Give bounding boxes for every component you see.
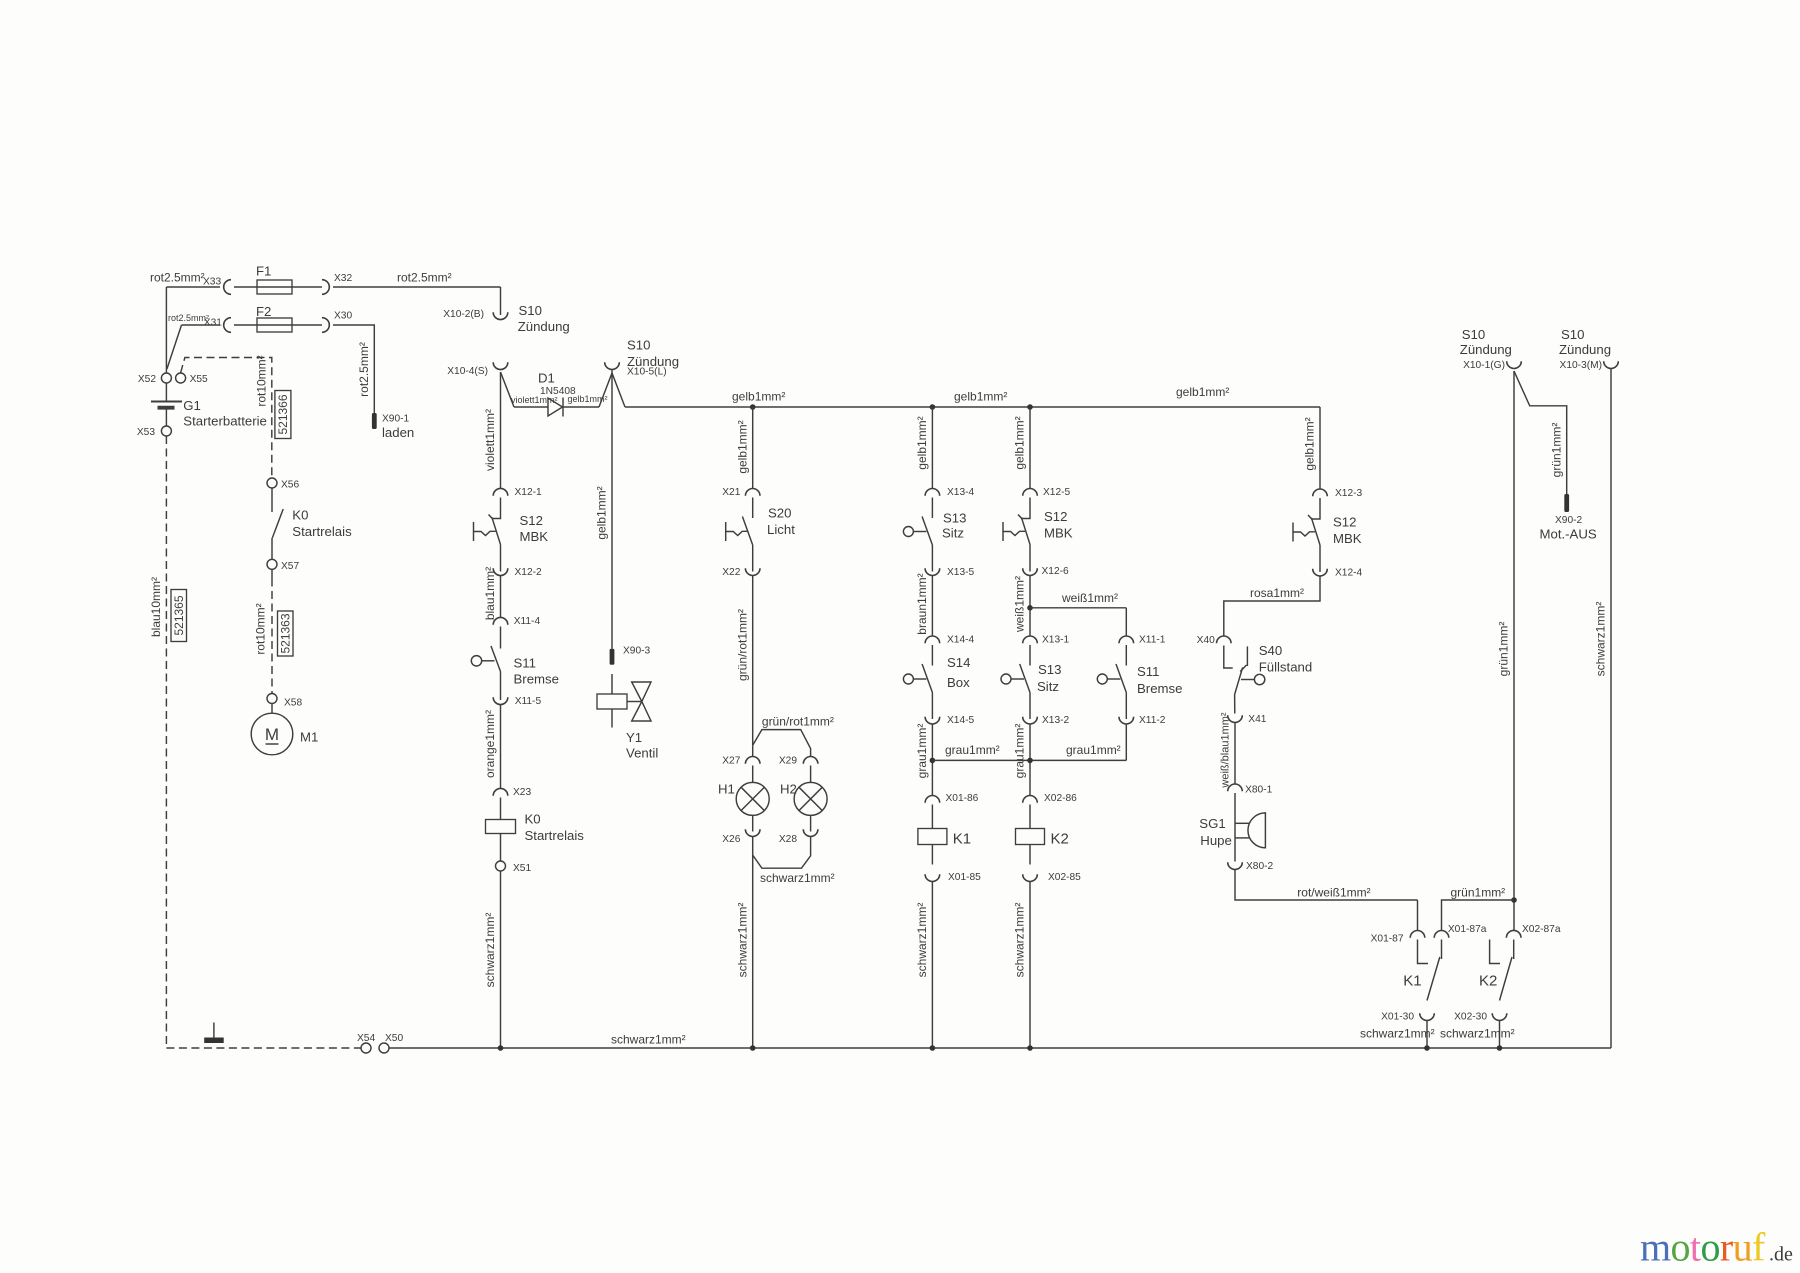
switch S12 MBK: [1003, 498, 1030, 572]
svg-text:K0: K0: [525, 812, 541, 827]
connector X10-5(L): [605, 362, 620, 369]
svg-text:Bremse: Bremse: [1137, 681, 1182, 696]
svg-text:blau1mm²: blau1mm²: [483, 567, 497, 620]
connector X22: [745, 568, 760, 575]
svg-text:schwarz1mm²: schwarz1mm²: [611, 1033, 686, 1047]
junction K1 branch: [930, 1045, 936, 1051]
relay contact K2: [1490, 940, 1514, 1001]
svg-text:violett1mm²: violett1mm²: [483, 409, 497, 471]
svg-text:X10-2(B): X10-2(B): [443, 309, 484, 320]
junction S20 branch: [750, 404, 756, 410]
svg-text:X22: X22: [722, 567, 740, 578]
terminal X50: [379, 1043, 389, 1053]
wire K1 to X01-85: [931, 845, 933, 865]
svg-text:rosa1mm²: rosa1mm²: [1250, 586, 1304, 600]
connector X27: [745, 757, 760, 764]
svg-text:grau1mm²: grau1mm²: [945, 743, 1000, 757]
svg-text:X02-85: X02-85: [1048, 872, 1081, 883]
wire through fuse F2: [234, 324, 322, 326]
svg-text:H1: H1: [718, 782, 735, 797]
connector X01-30: [1420, 1013, 1435, 1020]
svg-text:Licht: Licht: [767, 522, 795, 537]
svg-text:gelb1mm²: gelb1mm²: [735, 420, 749, 473]
svg-text:X57: X57: [281, 561, 299, 572]
svg-text:schwarz1mm²: schwarz1mm²: [735, 903, 749, 978]
svg-text:X80-2: X80-2: [1246, 861, 1274, 872]
connector X11-1: [1119, 636, 1134, 643]
svg-text:S40: S40: [1259, 643, 1282, 658]
svg-text:X10-4(S): X10-4(S): [447, 366, 488, 377]
svg-text:weiß1mm²: weiß1mm²: [1061, 591, 1118, 605]
wire weiß1mm²: [1029, 576, 1031, 637]
svg-text:X32: X32: [334, 273, 352, 284]
svg-text:X13-1: X13-1: [1042, 635, 1070, 646]
wire to X27: [752, 745, 754, 756]
relay contact K0 Startrelais: [272, 488, 283, 559]
connector X23: [493, 788, 508, 795]
junction S13 branch: [930, 404, 936, 410]
wire schwarz1mm² to ground bus: [1499, 1021, 1501, 1049]
junction lamp branch: [750, 1045, 756, 1051]
connector X80-1: [1228, 784, 1243, 791]
wire grün/rot1mm²: [752, 576, 754, 746]
connector X01-86: [925, 796, 940, 803]
wire into diode D1: [514, 406, 548, 408]
svg-text:F1: F1: [256, 264, 271, 279]
svg-text:MBK: MBK: [520, 529, 549, 544]
connector X11-2: [1119, 717, 1134, 724]
connector X12-1: [493, 488, 508, 495]
wire grau1mm² to K1: [931, 724, 933, 796]
wire grün1mm² to X90-2: [1514, 371, 1567, 494]
svg-text:schwarz1mm²: schwarz1mm²: [1594, 602, 1608, 677]
terminal X90-2 (Mot.-AUS): [1564, 494, 1569, 512]
svg-text:X31: X31: [204, 318, 222, 329]
svg-text:schwarz1mm²: schwarz1mm²: [483, 913, 497, 988]
wire schwarz1mm² to ground bus: [1426, 1021, 1428, 1049]
connector X12-4: [1313, 569, 1328, 576]
wire rot10mm² X57 to X58 (dashed): [271, 579, 273, 694]
svg-text:schwarz1mm²: schwarz1mm²: [1440, 1027, 1515, 1041]
relay contact K1: [1418, 940, 1442, 1001]
terminal X57: [267, 559, 277, 569]
wire rot2.5mm² X30 to X90-1: [333, 325, 374, 413]
svg-text:X13-4: X13-4: [947, 487, 975, 498]
svg-text:S10: S10: [519, 303, 542, 318]
svg-text:X55: X55: [190, 374, 208, 385]
pin H2 to X28: [810, 815, 812, 831]
junction K1 contact branch: [1424, 1045, 1430, 1051]
wire gelb1mm² bus to X21: [752, 407, 754, 489]
svg-text:grün/rot1mm²: grün/rot1mm²: [762, 715, 834, 729]
svg-text:rot/weiß1mm²: rot/weiß1mm²: [1297, 886, 1370, 900]
pin to K2 coil: [1029, 805, 1031, 829]
connector X10-3(M): [1604, 361, 1619, 368]
fuse F1: [257, 280, 292, 294]
svg-text:X12-3: X12-3: [1335, 488, 1363, 499]
svg-text:Hupe: Hupe: [1200, 833, 1232, 848]
svg-text:S12: S12: [520, 513, 543, 528]
connector X01-85: [925, 874, 940, 881]
switch S12 MBK: [1293, 498, 1320, 572]
svg-text:K0: K0: [292, 508, 308, 523]
wire schwarz1mm² to ground bus: [931, 882, 933, 1049]
switch S14 Box: [903, 645, 932, 719]
svg-text:laden: laden: [382, 425, 414, 440]
switch S12 MBK: [474, 498, 501, 572]
svg-text:X01-30: X01-30: [1381, 1012, 1414, 1023]
svg-text:X12-1: X12-1: [515, 487, 543, 498]
connector X28: [803, 829, 818, 836]
svg-text:gelb1mm²: gelb1mm²: [595, 486, 609, 539]
svg-text:weiß1mm²: weiß1mm²: [1013, 576, 1027, 633]
svg-text:rot10mm²: rot10mm²: [255, 355, 269, 406]
svg-text:braun1mm²: braun1mm²: [915, 573, 929, 634]
junction K2 branch: [1027, 1045, 1033, 1051]
part number 521365: [171, 590, 187, 642]
connector X12-2: [493, 568, 508, 575]
svg-text:X26: X26: [722, 834, 740, 845]
svg-text:Zündung: Zündung: [1559, 342, 1611, 357]
svg-text:gelb1mm²: gelb1mm²: [915, 416, 929, 469]
switch S20 Licht: [726, 498, 753, 572]
terminal X90-1 (laden): [372, 413, 377, 429]
terminal X53: [161, 426, 171, 436]
svg-text:S11: S11: [514, 656, 537, 671]
svg-text:gelb1mm²: gelb1mm²: [954, 390, 1007, 404]
relay coil K2: [1016, 829, 1045, 845]
svg-text:X01-85: X01-85: [948, 872, 981, 883]
wire gelb1mm² bus to X12-3: [1319, 407, 1321, 489]
svg-text:X11-2: X11-2: [1139, 715, 1166, 726]
svg-text:X41: X41: [1248, 714, 1266, 725]
svg-text:X01-87a: X01-87a: [1448, 924, 1487, 935]
pin X29 to H2: [810, 766, 812, 783]
svg-text:rot2.5mm²: rot2.5mm²: [357, 342, 371, 397]
wire gelb1mm² bus to X12-5: [1029, 407, 1031, 489]
wire X23 to K0 coil: [500, 798, 502, 820]
connector X11-4: [493, 617, 508, 624]
wire rot2.5mm² battery to X33: [166, 286, 220, 288]
wire K0 to X51: [500, 834, 502, 862]
chassis ground: [204, 1023, 224, 1044]
svg-text:X12-5: X12-5: [1043, 487, 1071, 498]
switch S11 Bremse: [1097, 645, 1126, 719]
svg-text:grün1mm²: grün1mm²: [1497, 622, 1511, 677]
svg-text:X54: X54: [357, 1033, 375, 1044]
svg-text:X90-3: X90-3: [623, 646, 651, 657]
svg-text:X28: X28: [779, 834, 797, 845]
wire X90-3 to Y1: [611, 674, 613, 694]
svg-text:521366: 521366: [276, 394, 290, 434]
svg-text:.de: .de: [1769, 1244, 1793, 1266]
svg-text:Box: Box: [947, 675, 970, 690]
svg-text:K2: K2: [1051, 831, 1069, 848]
svg-text:K1: K1: [953, 831, 971, 848]
bus wire schwarz1mm² ground: [389, 1047, 1611, 1049]
connector X31: [224, 318, 231, 333]
svg-text:schwarz1mm²: schwarz1mm²: [915, 903, 929, 978]
junction K2 contact branch: [1497, 1045, 1503, 1051]
connector X02-30: [1492, 1013, 1507, 1020]
part number 521363: [278, 611, 294, 656]
svg-text:S10: S10: [627, 338, 650, 353]
svg-text:Startrelais: Startrelais: [525, 828, 585, 843]
svg-text:X52: X52: [138, 374, 156, 385]
starter motor M1: [251, 713, 293, 755]
wire grau1mm² down to grau bus: [1125, 724, 1127, 760]
junction grau bus: [930, 758, 936, 764]
svg-text:schwarz1mm²: schwarz1mm²: [760, 871, 835, 885]
svg-text:X50: X50: [385, 1033, 403, 1044]
junction K0 branch: [498, 1045, 504, 1051]
svg-text:M1: M1: [300, 730, 318, 745]
wire weiß/blau1mm²: [1234, 723, 1236, 785]
svg-text:schwarz1mm²: schwarz1mm²: [1360, 1027, 1435, 1041]
svg-text:X33: X33: [203, 277, 221, 288]
svg-text:S20: S20: [768, 506, 791, 521]
junction weiß bus: [1027, 605, 1033, 611]
connector X13-2: [1023, 717, 1038, 724]
connector X26: [745, 829, 760, 836]
bus wire grau1mm²: [932, 759, 1126, 761]
wire rot/weiß1mm² to K1 contact: [1235, 870, 1418, 901]
svg-text:gelb1mm²: gelb1mm²: [1303, 417, 1317, 470]
wire grün1mm² X10-1(G) to K contacts: [1513, 371, 1515, 931]
svg-text:Y1: Y1: [626, 730, 642, 745]
svg-text:X11-4: X11-4: [514, 616, 541, 627]
connector X10-4(S): [493, 362, 508, 369]
svg-text:grau1mm²: grau1mm²: [1013, 724, 1027, 779]
wire braun1mm²: [931, 576, 933, 637]
connector X10-2(B): [493, 312, 508, 319]
junction grün1mm²: [1511, 897, 1517, 903]
svg-text:orange1mm²: orange1mm²: [483, 710, 497, 778]
connector X01-87a: [1434, 931, 1449, 938]
wire gelb1mm² from D1: [563, 406, 599, 408]
terminal X54: [361, 1043, 371, 1053]
connector X13-5: [925, 568, 940, 575]
pin to K1 coil: [931, 805, 933, 829]
svg-text:X51: X51: [513, 863, 531, 874]
svg-text:gelb1mm²: gelb1mm²: [1013, 416, 1027, 469]
svg-text:X58: X58: [284, 698, 302, 709]
lamp H2: [794, 782, 827, 815]
wire orange1mm²: [500, 705, 502, 789]
switch S13 Sitz: [903, 498, 932, 572]
terminal X56: [267, 478, 277, 488]
svg-text:X14-4: X14-4: [947, 635, 975, 646]
wire weiß1mm² to X11-1: [1125, 608, 1127, 636]
wire schwarz1mm² X26 to ground bus: [752, 837, 754, 1049]
float switch S40 Füllstand: [1224, 646, 1265, 714]
svg-text:rot10mm²: rot10mm²: [254, 603, 268, 654]
svg-text:X90-2: X90-2: [1555, 515, 1583, 526]
svg-text:Sitz: Sitz: [942, 526, 964, 541]
terminal X90-3: [610, 649, 615, 665]
wire gelb1mm² bus to X13-4: [931, 407, 933, 489]
wire rot2.5mm² X32 to S10: [333, 286, 501, 288]
svg-text:M: M: [265, 725, 279, 744]
svg-text:S12: S12: [1044, 509, 1067, 524]
connector X14-4: [925, 636, 940, 643]
relay coil K1: [918, 829, 947, 845]
svg-text:blau10mm²: blau10mm²: [149, 577, 163, 637]
wire schwarz1mm² to ground bus: [500, 871, 502, 1048]
svg-text:X56: X56: [281, 480, 299, 491]
solenoid valve Y1 Ventil: [597, 682, 651, 728]
svg-text:X10-1(G): X10-1(G): [1463, 360, 1505, 371]
svg-text:grün/rot1mm²: grün/rot1mm²: [735, 609, 749, 681]
svg-text:S10: S10: [1462, 327, 1485, 342]
connector X80-2: [1228, 862, 1243, 869]
connector X14-5: [925, 717, 940, 724]
connector X02-87a: [1506, 930, 1521, 937]
svg-text:grau1mm²: grau1mm²: [915, 724, 929, 779]
svg-text:Zündung: Zündung: [518, 319, 570, 334]
svg-text:K1: K1: [1403, 973, 1421, 990]
svg-text:Mot.-AUS: Mot.-AUS: [1540, 527, 1597, 542]
connector X41: [1228, 715, 1243, 722]
svg-text:motoruf: motoruf: [1640, 1225, 1766, 1270]
svg-text:Startrelais: Startrelais: [292, 524, 352, 539]
svg-text:X13-5: X13-5: [947, 567, 975, 578]
svg-text:X40: X40: [1197, 635, 1215, 646]
svg-text:X23: X23: [513, 787, 531, 798]
connector X32: [322, 280, 329, 295]
wire violett1mm² X10-4(S) to X12-1: [500, 372, 502, 489]
connector X10-1(G): [1507, 361, 1522, 368]
svg-text:S10: S10: [1561, 327, 1584, 342]
svg-text:X10-3(M): X10-3(M): [1560, 360, 1602, 371]
svg-text:Bremse: Bremse: [514, 672, 559, 687]
svg-text:K2: K2: [1479, 973, 1497, 990]
switch S11 Bremse: [471, 627, 500, 701]
svg-text:521363: 521363: [278, 613, 292, 653]
wire X10-5(L) to gelb bus: [612, 373, 625, 407]
svg-text:X29: X29: [779, 756, 797, 767]
svg-text:X80-1: X80-1: [1245, 785, 1273, 796]
wire X58 to M1: [271, 704, 273, 714]
svg-text:S12: S12: [1333, 515, 1356, 530]
connector X21: [745, 489, 760, 496]
svg-text:rot2.5mm²: rot2.5mm²: [397, 271, 452, 285]
wire down to X52: [165, 287, 167, 373]
connector X12-6: [1023, 568, 1038, 575]
wire grün/rot1mm² branch to X29: [753, 730, 811, 757]
svg-text:SG1: SG1: [1199, 816, 1225, 831]
svg-text:X12-6: X12-6: [1042, 566, 1070, 577]
fuse F2: [257, 318, 292, 332]
svg-text:S11: S11: [1137, 664, 1160, 679]
connector X33: [224, 280, 231, 295]
wire dashed to X54: [166, 1047, 361, 1049]
svg-text:weiß/blau1mm²: weiß/blau1mm²: [1220, 712, 1232, 789]
terminal X51: [496, 861, 506, 871]
connector X30: [322, 318, 329, 333]
svg-text:G1: G1: [183, 398, 201, 413]
wire drop into X10-2(B): [500, 287, 502, 315]
part number 521366: [275, 391, 291, 439]
svg-text:Füllstand: Füllstand: [1259, 660, 1313, 675]
svg-text:grün1mm²: grün1mm²: [1549, 423, 1563, 478]
pin X27 to H1: [752, 766, 754, 783]
svg-text:X90-1: X90-1: [382, 414, 410, 425]
pin X80-1 to SG1: [1234, 793, 1236, 823]
wire through fuse F1: [234, 286, 322, 288]
svg-text:X21: X21: [722, 487, 740, 498]
connector X12-5: [1023, 488, 1038, 495]
svg-text:S14: S14: [947, 655, 970, 670]
svg-text:gelb1mm²: gelb1mm²: [732, 390, 785, 404]
svg-text:grün1mm²: grün1mm²: [1451, 886, 1506, 900]
terminal X58: [267, 694, 277, 704]
svg-text:grau1mm²: grau1mm²: [1066, 743, 1121, 757]
svg-text:X12-4: X12-4: [1335, 568, 1363, 579]
wire SG1 to X80-2: [1234, 838, 1236, 862]
bus wire weiß1mm²: [1030, 607, 1126, 609]
wire K2 to X02-85: [1029, 845, 1031, 865]
svg-text:MBK: MBK: [1044, 526, 1073, 541]
svg-text:Starterbatterie: Starterbatterie: [183, 413, 267, 428]
terminal X55: [176, 373, 186, 383]
connector X13-1: [1023, 636, 1038, 643]
svg-text:X02-30: X02-30: [1454, 1012, 1487, 1023]
switch S13 Sitz: [1001, 645, 1030, 719]
wire below X57: [271, 569, 273, 578]
motoruf.de logo: [1640, 1225, 1793, 1270]
pin H1 to X26: [752, 815, 754, 831]
connector X11-5: [493, 697, 508, 704]
svg-text:X01-86: X01-86: [946, 793, 979, 804]
svg-text:X02-86: X02-86: [1044, 793, 1077, 804]
relay coil K0 Startrelais: [486, 820, 516, 834]
junction S12 branch: [1027, 404, 1033, 410]
wire up to X10-5(L): [599, 373, 612, 407]
svg-text:H2: H2: [780, 782, 797, 797]
svg-text:X30: X30: [334, 311, 352, 322]
svg-text:S13: S13: [1038, 662, 1061, 677]
svg-text:Sitz: Sitz: [1037, 679, 1059, 694]
terminal X52: [161, 373, 171, 383]
svg-text:Zündung: Zündung: [1460, 342, 1512, 357]
connector X29: [803, 757, 818, 764]
lamp H1: [736, 782, 769, 815]
svg-text:X11-5: X11-5: [515, 696, 542, 707]
svg-text:X10-5(L): X10-5(L): [627, 367, 667, 378]
svg-text:schwarz1mm²: schwarz1mm²: [1013, 903, 1027, 978]
svg-text:Ventil: Ventil: [626, 746, 658, 761]
svg-text:X27: X27: [722, 756, 740, 767]
wire down to X01-87: [1417, 900, 1419, 931]
svg-text:X12-2: X12-2: [515, 567, 543, 578]
svg-text:X53: X53: [137, 427, 155, 438]
connector X12-3: [1313, 489, 1328, 496]
wire blau10mm² battery minus (dashed): [165, 436, 167, 1048]
bus wire gelb1mm² horizontal: [625, 406, 1320, 408]
svg-text:gelb1mm²: gelb1mm²: [1176, 385, 1229, 399]
svg-text:X13-2: X13-2: [1042, 715, 1070, 726]
wire schwarz1mm² X10-3(M) to ground bus: [1610, 369, 1612, 1049]
wire grün1mm² to X01-87a: [1442, 900, 1515, 931]
horn SG1 Hupe: [1235, 813, 1265, 848]
svg-text:D1: D1: [538, 371, 555, 386]
connector X01-87: [1410, 931, 1425, 938]
wire gelb1mm² X10-5(L) to X90-3: [611, 370, 613, 649]
wire schwarz1mm² to ground bus: [1029, 882, 1031, 1049]
wire schwarz1mm² X28 merge: [753, 837, 811, 869]
svg-text:X11-1: X11-1: [1139, 635, 1166, 646]
